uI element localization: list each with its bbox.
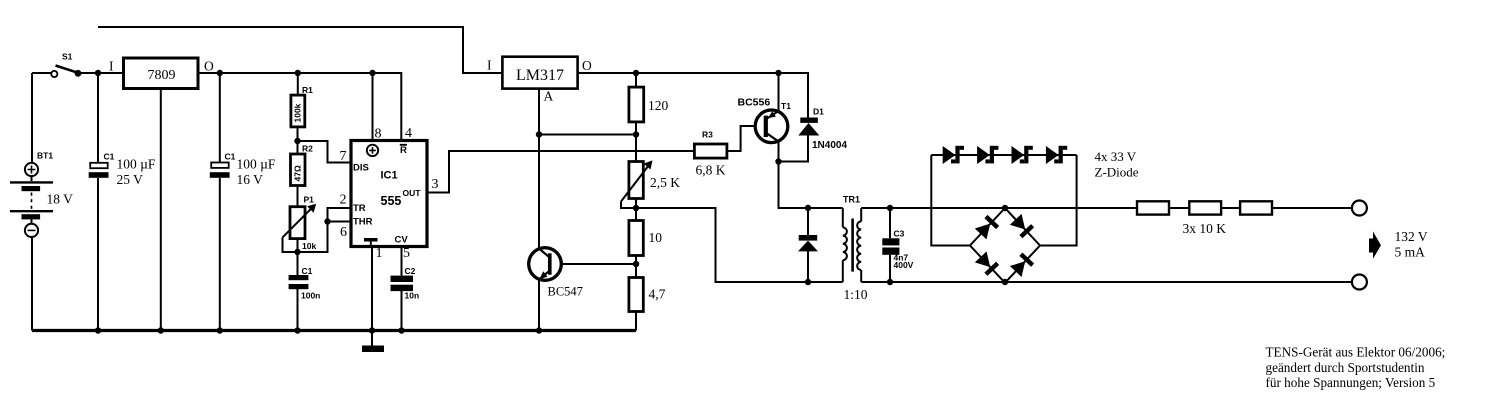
- switch S1: [51, 52, 81, 78]
- wire pot wiper node to primary bottom: [636, 208, 843, 282]
- svg-text:25 V: 25 V: [117, 172, 144, 187]
- regulator 7809: [109, 58, 214, 89]
- freewheel diode at primary: [798, 235, 818, 251]
- svg-text:A: A: [544, 89, 554, 104]
- svg-text:R1: R1: [302, 85, 313, 95]
- svg-text:18 V: 18 V: [47, 192, 74, 207]
- junction dot 120 / 2,5K node: [633, 131, 639, 137]
- svg-text:47Ω: 47Ω: [293, 165, 303, 181]
- svg-text:4,7: 4,7: [649, 287, 666, 302]
- capacitor C3 4n7 400V: [882, 229, 913, 271]
- svg-text:120: 120: [648, 98, 669, 113]
- junction dot R1/R2/DIS node: [294, 138, 300, 144]
- wire R3 to BC556 base: [727, 126, 764, 151]
- junction dot ground rail / C1 100n: [294, 327, 300, 333]
- svg-text:I: I: [487, 58, 492, 73]
- wire 555 pin8: [372, 73, 374, 141]
- svg-text:geändert durch Sportstudentin: geändert durch Sportstudentin: [1266, 360, 1425, 375]
- svg-text:TR: TR: [353, 203, 366, 214]
- svg-text:O: O: [582, 58, 592, 73]
- junction dot ground rail / pin 1: [369, 327, 375, 333]
- wire C1 16V vertical: [219, 73, 221, 331]
- svg-text:100 µF: 100 µF: [237, 157, 276, 172]
- op-amp/timer IC1 555 box: [340, 126, 439, 261]
- resistor R3 6,8K: [694, 130, 727, 178]
- resistor 120: [629, 87, 669, 122]
- 555 pin8 plus-in-circle symbol: [367, 145, 378, 156]
- wire P1 wiper: [283, 237, 298, 252]
- svg-text:für hohe Spannungen; Version 5: für hohe Spannungen; Version 5: [1266, 375, 1436, 390]
- wire 7809 output rail to 555 pin4 corner: [198, 73, 401, 141]
- junction dot 9V rail / C1 16V: [217, 70, 223, 76]
- 555 pin1 gnd symbol inside box: [364, 238, 378, 245]
- junction dot switch/7809 input node: [95, 70, 101, 76]
- svg-text:I: I: [109, 59, 114, 74]
- junction dot ground rail / 7809 gnd: [158, 327, 164, 333]
- bridge diode left-top: [975, 215, 999, 239]
- output terminal top: [1352, 201, 1367, 216]
- svg-text:OUT: OUT: [403, 188, 422, 198]
- svg-text:6: 6: [340, 225, 347, 240]
- svg-text:O: O: [204, 59, 214, 74]
- wire zener chain left leg: [931, 155, 970, 246]
- zener diode chain 4x 33V: [943, 146, 1139, 180]
- svg-text:7: 7: [340, 149, 347, 164]
- junction dot THR tap: [324, 218, 330, 224]
- diode D1 1N4004: [798, 107, 847, 152]
- wire secondary bottom to lower terminal: [861, 281, 1352, 283]
- capacitor C1 100n: [289, 266, 321, 301]
- svg-text:R3: R3: [702, 130, 713, 140]
- svg-text:C1: C1: [302, 266, 313, 276]
- bridge diode top-right: [1010, 214, 1034, 238]
- wire secondary top to output chain: [861, 207, 1137, 209]
- resistor 4,7: [629, 278, 666, 312]
- svg-text:8: 8: [375, 127, 382, 142]
- junction dot P1 wiper node: [294, 249, 300, 255]
- capacitor C1 100uF 25V: [89, 152, 156, 188]
- wire between output resistors: [1169, 207, 1352, 209]
- svg-text:R: R: [400, 145, 407, 156]
- wire R1 column: [297, 73, 299, 331]
- svg-text:TENS-Gerät aus Elektor 06/2006: TENS-Gerät aus Elektor 06/2006;: [1266, 345, 1446, 360]
- wire DIS pin7 connection: [298, 141, 352, 163]
- transistor BC547: [529, 248, 583, 299]
- svg-text:S1: S1: [62, 52, 73, 62]
- bridge diode left-bottom: [975, 251, 999, 275]
- svg-text:T1: T1: [781, 101, 791, 111]
- svg-text:2: 2: [340, 193, 347, 208]
- junction dot primary top / freewheel diode: [805, 205, 811, 211]
- battery BT1: [10, 151, 73, 237]
- wire top supply from battery node to LM317 input: [98, 27, 502, 73]
- svg-text:555: 555: [381, 194, 402, 208]
- svg-text:1N4004: 1N4004: [812, 140, 847, 151]
- svg-text:6,8 K: 6,8 K: [696, 163, 726, 178]
- svg-text:C1: C1: [104, 152, 115, 162]
- wire 120 resistor column: [635, 73, 637, 331]
- junction dot ground rail / BC547 emitter: [536, 327, 542, 333]
- transistor T1 BC556: [738, 97, 792, 143]
- output terminal bottom: [1352, 275, 1367, 290]
- output arrow symbol: [1369, 232, 1381, 259]
- wire LM317 output rail: [578, 73, 808, 118]
- 555 reset pin symbol (R with overbar): [400, 145, 407, 156]
- svg-text:LM317: LM317: [516, 67, 564, 84]
- svg-text:BT1: BT1: [37, 151, 53, 161]
- junction dot 10 / 4,7 / BC547 base node: [633, 261, 639, 267]
- junction dot primary bottom / freewheel diode: [805, 279, 811, 285]
- svg-text:4: 4: [405, 126, 412, 141]
- svg-text:BC547: BC547: [548, 285, 583, 299]
- wire ground symbol stub: [371, 331, 373, 347]
- wire freewheel diode vertical: [807, 208, 809, 282]
- ground symbol: [362, 346, 384, 353]
- svg-text:100n: 100n: [301, 291, 320, 301]
- wire 555 pin5 to C2: [401, 247, 403, 331]
- ground rail: [32, 329, 636, 332]
- wire 555 pin1 to ground rail: [371, 247, 373, 331]
- svg-text:4x 33 V: 4x 33 V: [1095, 149, 1137, 164]
- resistor 10: [629, 221, 662, 256]
- svg-text:2,5 K: 2,5 K: [650, 175, 680, 190]
- transformer TR1: [843, 195, 868, 303]
- wire BC556 collector: [778, 142, 780, 162]
- wire BC547 emitter to rail: [538, 280, 540, 331]
- wire D1 return to collector node: [779, 136, 809, 162]
- wire C1 25V vertical: [97, 73, 99, 331]
- svg-text:132 V: 132 V: [1395, 229, 1428, 244]
- svg-text:10: 10: [649, 230, 663, 245]
- svg-text:1:10: 1:10: [844, 287, 868, 302]
- bridge rectifier diamond: [970, 208, 1040, 283]
- svg-text:100k: 100k: [293, 103, 303, 122]
- wire C3 vertical: [889, 208, 891, 282]
- regulator LM317: [487, 57, 592, 104]
- junction dot ground rail / C1 25V: [95, 327, 101, 333]
- wire 2,5K pot wiper: [621, 202, 636, 209]
- junction dot secondary top / C3: [887, 205, 893, 211]
- junction dot bridge AC bottom vertex: [1002, 279, 1008, 285]
- junction dot 9V rail / R1: [295, 70, 301, 76]
- svg-text:DIS: DIS: [353, 163, 369, 174]
- wire 555 OUT pin3 to R3: [427, 151, 694, 193]
- svg-text:TR1: TR1: [843, 195, 860, 205]
- svg-text:100 µF: 100 µF: [117, 157, 156, 172]
- resistor R1 100k: [291, 85, 313, 127]
- wire switch to 7809 input: [78, 72, 124, 74]
- svg-text:D1: D1: [813, 107, 824, 117]
- wire BC556 emitter: [778, 73, 780, 111]
- svg-text:10n: 10n: [405, 291, 420, 301]
- label 132V 5mA: [1395, 229, 1428, 260]
- junction dot T1 collector / D1 node: [775, 158, 781, 164]
- wire LM317 adjust: [539, 89, 636, 249]
- svg-text:CV: CV: [395, 235, 409, 246]
- svg-text:P1: P1: [304, 195, 315, 205]
- svg-text:IC1: IC1: [381, 170, 398, 182]
- wire zener chain right leg: [1040, 155, 1077, 246]
- svg-text:C1: C1: [225, 152, 236, 162]
- output resistors 3x 10K: [1137, 201, 1272, 236]
- junction dot ground rail / C1 16V: [217, 327, 223, 333]
- wire BC547 base: [552, 263, 637, 265]
- junction dot secondary bottom / C3: [887, 279, 893, 285]
- svg-text:400V: 400V: [894, 260, 914, 270]
- svg-text:10k: 10k: [302, 241, 316, 251]
- bridge diode bottom-right: [1010, 253, 1034, 277]
- potentiometer 2,5K: [621, 160, 680, 201]
- wire zener chain top: [931, 154, 1076, 156]
- junction dot LM317 out / 120: [633, 70, 639, 76]
- svg-text:C2: C2: [405, 266, 416, 276]
- junction dot 9V rail / pin 8: [369, 70, 375, 76]
- svg-text:3x 10 K: 3x 10 K: [1183, 221, 1227, 236]
- svg-text:3: 3: [432, 177, 439, 192]
- svg-text:5 mA: 5 mA: [1395, 245, 1426, 260]
- svg-text:5: 5: [403, 246, 410, 261]
- junction dot LM317 out / T1 emitter: [775, 70, 781, 76]
- svg-text:THR: THR: [353, 217, 373, 228]
- wire battery positive to switch: [32, 73, 51, 163]
- potentiometer P1 10k: [283, 195, 317, 252]
- capacitor C2 10n: [391, 266, 420, 301]
- junction dot bridge AC top vertex: [1002, 205, 1008, 211]
- svg-text:Z-Diode: Z-Diode: [1095, 165, 1139, 180]
- svg-text:7809: 7809: [148, 68, 176, 83]
- junction dot 2,5K wiper node: [633, 205, 639, 211]
- wire 7809 ground pin: [160, 89, 162, 331]
- capacitor C1 100uF 16V: [210, 152, 276, 188]
- junction dot LM317 adjust node: [536, 131, 542, 137]
- junction dot ground rail / C2: [398, 327, 404, 333]
- resistor R2 47ohm: [291, 144, 314, 186]
- wire TR pin2 / THR pin6 vertical: [298, 208, 352, 252]
- caption text block: [1266, 345, 1446, 391]
- wire battery negative down to ground rail: [31, 237, 33, 331]
- svg-text:1: 1: [376, 246, 383, 261]
- svg-text:C3: C3: [894, 229, 905, 239]
- svg-text:BC556: BC556: [738, 97, 771, 109]
- svg-text:16 V: 16 V: [237, 172, 264, 187]
- wire collector node to transformer primary top: [779, 162, 843, 209]
- svg-text:R2: R2: [302, 144, 313, 154]
